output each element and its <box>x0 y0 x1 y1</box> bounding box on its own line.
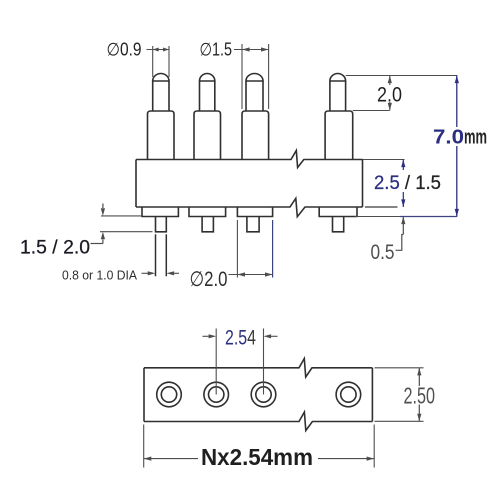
svg-text:∅0.9: ∅0.9 <box>107 40 142 60</box>
svg-text:2.0: 2.0 <box>377 83 402 107</box>
svg-text:2.54: 2.54 <box>225 327 256 350</box>
svg-text:2.50: 2.50 <box>404 383 436 409</box>
svg-text:2.5 / 1.5: 2.5 / 1.5 <box>374 172 441 194</box>
svg-text:∅2.0: ∅2.0 <box>190 268 228 291</box>
svg-text:7.0mm: 7.0mm <box>433 127 487 149</box>
svg-text:0.5: 0.5 <box>371 240 395 264</box>
svg-text:∅1.5: ∅1.5 <box>200 40 233 60</box>
svg-text:0.8 or 1.0 DIA: 0.8 or 1.0 DIA <box>62 268 137 283</box>
svg-text:Nx2.54mm: Nx2.54mm <box>201 444 313 470</box>
svg-text:1.5 / 2.0: 1.5 / 2.0 <box>20 238 90 259</box>
